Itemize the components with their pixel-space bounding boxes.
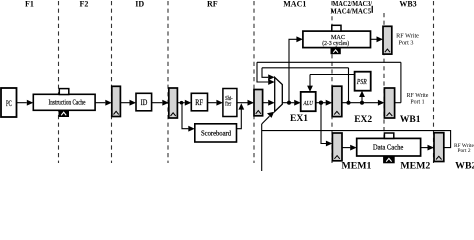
node EX2 output junction — [346, 101, 350, 105]
wire WB2 feedback loop to mux bottom — [262, 112, 451, 171]
svg-text:MAC4/MAC5: MAC4/MAC5 — [331, 7, 372, 15]
svg-text:Scoreboard: Scoreboard — [201, 130, 231, 138]
wire bus B horizontal — [262, 67, 349, 69]
box Data Cache — [357, 138, 421, 156]
svg-text:PSR: PSR — [356, 78, 367, 86]
svg-text:Port 3: Port 3 — [399, 39, 414, 46]
box ID — [136, 93, 152, 111]
pipeline notch MAC top — [332, 25, 341, 31]
svg-text:EX1: EX1 — [290, 114, 308, 124]
wire Instruction Cache to register F2/ID — [95, 100, 112, 106]
stage boundary dashed line F1/F2 — [58, 1, 60, 163]
wire register MEM1 to Data Cache — [342, 145, 357, 151]
node mux output junction — [287, 101, 291, 105]
svg-text:F1: F1 — [25, 0, 34, 8]
pipeline register F2/ID — [112, 86, 121, 116]
pipeline register WB3 (RF write port 3) — [383, 26, 392, 54]
wire Scoreboard output up to main line — [237, 103, 245, 128]
pipeline register EX1/EX2 — [332, 86, 342, 116]
svg-text:MEM2: MEM2 — [400, 160, 430, 171]
wire bus A horizontal — [257, 61, 401, 63]
svg-text:Data Cache: Data Cache — [373, 144, 404, 152]
mux EX1 — [275, 77, 283, 111]
wire MAC to register WB3 — [371, 36, 384, 42]
pipeline register MEM1 — [332, 133, 342, 161]
wire junction up to MAC input — [289, 36, 303, 102]
stage boundary dashed line ID/RF — [167, 1, 169, 163]
op box ALU — [301, 92, 316, 111]
stage boundary dashed line EX1/EX2 — [331, 1, 333, 163]
wire bus C down into ALU top — [307, 75, 313, 92]
stage boundary dashed line F2/ID — [111, 1, 113, 163]
wire ALU output down to register MEM1 — [321, 103, 332, 147]
wire PC to Instruction Cache — [17, 100, 34, 106]
stage label MAC2/MAC3/MAC4/MAC5 — [331, 0, 373, 15]
stage boundary dashed line EX2/WB — [383, 13, 385, 163]
wire bus B down to mux input — [262, 68, 275, 80]
wire RF to Shifter — [208, 100, 223, 106]
pipeline notch Data Cache top — [384, 133, 393, 138]
box PC — [1, 88, 17, 117]
label RF Write Port 1 — [407, 93, 429, 105]
pipeline notch MAC bottom with clock — [331, 48, 340, 54]
box Scoreboard — [195, 124, 237, 142]
label RF Write Port 2 — [454, 143, 474, 154]
svg-text:ID: ID — [141, 97, 148, 107]
svg-text:WB3: WB3 — [399, 0, 416, 8]
wire ID to register ID/RF — [152, 100, 169, 106]
wire up into PSR — [359, 91, 365, 103]
pipeline register WB2 — [434, 133, 444, 162]
wire EX2 feedback riser to bus B — [348, 68, 350, 103]
wire register to ID — [120, 100, 136, 106]
wire register to RF — [177, 100, 191, 106]
svg-text:F2: F2 — [80, 0, 89, 8]
svg-text:RF Write: RF Write — [407, 93, 429, 99]
box MAC — [303, 31, 371, 47]
wire register EX1 to mux — [263, 100, 275, 106]
svg-text:Port 1: Port 1 — [410, 99, 424, 105]
pipeline notch Data Cache bottom with clock — [384, 156, 395, 163]
svg-text:RF: RF — [207, 0, 218, 8]
node register output junction — [180, 101, 184, 105]
svg-text:MAC: MAC — [331, 34, 345, 41]
pipeline notch Instruction Cache top — [59, 89, 69, 95]
svg-text:WB2: WB2 — [455, 160, 474, 171]
pipeline register EX2/WB1 — [384, 88, 394, 118]
wire ALU to register EX2 — [316, 100, 333, 106]
svg-text:RF Write: RF Write — [396, 32, 419, 39]
wire PSR to ALU bus C — [310, 74, 355, 76]
box RF — [191, 93, 207, 111]
node PSR branch junction — [360, 101, 364, 105]
box Shifter — [223, 89, 237, 117]
wire branch down to Scoreboard — [182, 103, 195, 132]
wire bus A down to mux input — [257, 62, 275, 85]
box PSR — [355, 72, 371, 91]
pipeline register RF/EX1 — [254, 90, 263, 116]
svg-text:PC: PC — [6, 99, 12, 108]
svg-text:MAC1: MAC1 — [283, 0, 306, 8]
wire WB1 register output — [395, 102, 401, 104]
svg-text:fter: fter — [225, 100, 232, 107]
svg-text:RF: RF — [195, 98, 203, 107]
svg-text:ALU: ALU — [303, 100, 314, 107]
wire register EX2 to register WB1 — [342, 100, 385, 106]
wire Data Cache to register WB2 — [421, 145, 434, 151]
svg-text:(2-3 cycles): (2-3 cycles) — [322, 40, 349, 47]
svg-text:ID: ID — [135, 0, 144, 8]
stage boundary dashed line RF/EX1 — [253, 1, 255, 163]
box Instruction Cache — [33, 94, 95, 110]
wire WB1 feedback riser to bus A — [400, 62, 402, 102]
stage boundary dashed line WB right — [433, 1, 435, 163]
node ALU output junction — [319, 101, 323, 105]
svg-text:Port 2: Port 2 — [457, 148, 470, 154]
label RF Write Port 3 — [396, 32, 419, 46]
svg-text:Instruction Cache: Instruction Cache — [49, 99, 86, 107]
wire mux to ALU — [282, 100, 300, 106]
pipeline notch Instruction Cache bottom with clock — [59, 110, 69, 116]
wire Shifter to register EX1 — [237, 100, 254, 106]
svg-text:MEM1: MEM1 — [342, 160, 372, 171]
svg-text:WB1: WB1 — [400, 115, 421, 125]
pipeline register ID/RF — [169, 88, 178, 118]
svg-text:EX2: EX2 — [354, 115, 372, 125]
